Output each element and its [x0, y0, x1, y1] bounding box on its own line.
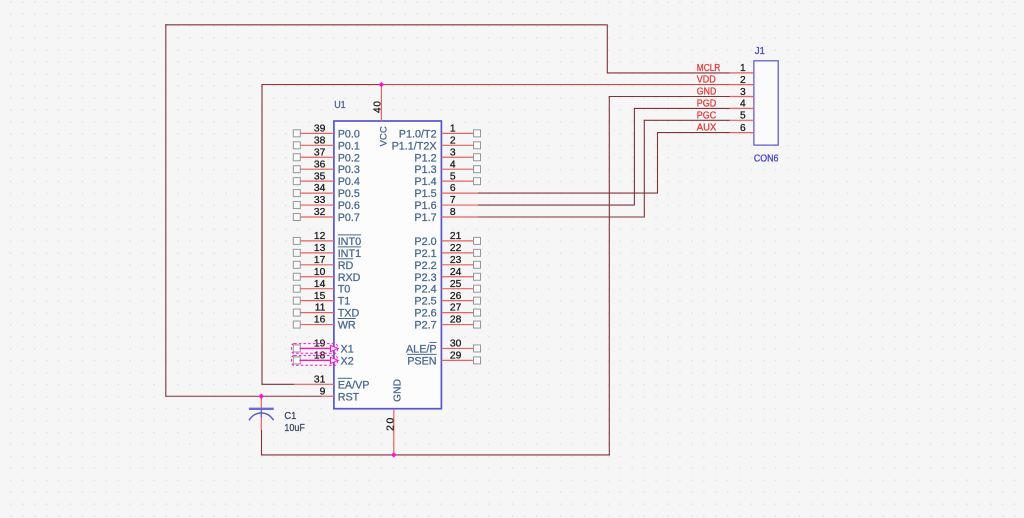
J1 pin 2 (VDD) — [697, 75, 754, 86]
svg-text:1: 1 — [450, 123, 456, 134]
svg-text:36: 36 — [314, 159, 326, 170]
svg-text:6: 6 — [740, 123, 746, 134]
svg-text:37: 37 — [314, 147, 326, 158]
svg-text:5: 5 — [450, 171, 456, 182]
U1 pin 38 P0.1 — [293, 135, 360, 152]
U1 pin 16 WR — [293, 315, 356, 332]
svg-text:T1: T1 — [338, 296, 351, 308]
svg-text:16: 16 — [314, 315, 326, 326]
U1 pin 35 P0.4 — [293, 171, 360, 188]
svg-text:P0.3: P0.3 — [338, 164, 360, 176]
svg-text:20: 20 — [386, 416, 397, 431]
U1 pin 2 P1.1/T2X — [392, 135, 481, 152]
svg-text:CON6: CON6 — [754, 154, 779, 165]
U1 pin 5 P1.4 — [414, 171, 480, 188]
svg-text:31: 31 — [314, 374, 326, 385]
U1 pin 8 P1.7 — [414, 207, 478, 224]
U1 pin 34 P0.5 — [293, 183, 360, 200]
svg-text:RST: RST — [338, 391, 360, 403]
svg-text:RD: RD — [338, 260, 354, 272]
U1 pin 19 X1 — [293, 339, 353, 356]
svg-text:PGD: PGD — [697, 99, 717, 110]
U1 pin 1 P1.0/T2 — [399, 123, 481, 140]
svg-text:P2.5: P2.5 — [414, 296, 436, 308]
U1 pin 14 T0 — [293, 279, 350, 296]
svg-text:30: 30 — [450, 339, 462, 350]
svg-text:P0.6: P0.6 — [338, 200, 360, 212]
svg-text:39: 39 — [314, 123, 326, 134]
wire PGC net: J1.5 to U1 P1.7(8) — [478, 120, 730, 218]
svg-text:VDD: VDD — [697, 75, 716, 86]
IC U1 body — [334, 121, 442, 409]
U1 pin 7 P1.6 — [414, 195, 478, 212]
svg-text:P2.7: P2.7 — [414, 320, 436, 332]
svg-text:WR: WR — [338, 320, 356, 332]
svg-text:AUX: AUX — [697, 123, 717, 134]
J1 pin 6 (AUX) — [697, 123, 754, 134]
wire VDD net: J1.2 to U1 VCC(40) and EA/VP(31) — [262, 84, 730, 385]
wire MCLR net: J1.1 to top-left loop to U1 RST — [165, 24, 730, 397]
U1 pin 25 P2.4 — [414, 279, 480, 296]
U1 pin 3 P1.2 — [414, 147, 480, 164]
J1 pin 3 (GND) — [697, 87, 754, 98]
U1 pin 23 P2.2 — [414, 255, 480, 272]
svg-text:3: 3 — [450, 147, 456, 158]
svg-text:T0: T0 — [338, 284, 351, 296]
svg-text:23: 23 — [450, 255, 462, 266]
svg-text:28: 28 — [450, 315, 462, 326]
svg-text:14: 14 — [314, 279, 326, 290]
svg-text:P1.4: P1.4 — [414, 176, 436, 188]
svg-text:VCC: VCC — [378, 126, 389, 146]
svg-text:P1.1/T2X: P1.1/T2X — [392, 140, 437, 152]
svg-text:15: 15 — [314, 291, 326, 302]
svg-text:17: 17 — [314, 255, 326, 266]
svg-text:10: 10 — [314, 267, 326, 278]
U1 pin 27 P2.6 — [414, 303, 480, 320]
U1 pin 6 P1.5 — [414, 183, 478, 200]
U1 pin 18 X2 — [293, 351, 353, 368]
svg-text:32: 32 — [314, 207, 326, 218]
svg-text:P0.4: P0.4 — [338, 176, 360, 188]
U1 pin 12 INT0 — [293, 231, 361, 248]
U1 pin 40 VCC (top) — [372, 85, 389, 147]
svg-text:P0.5: P0.5 — [338, 188, 360, 200]
svg-text:RXD: RXD — [338, 272, 361, 284]
svg-text:8: 8 — [450, 207, 456, 218]
U1 pin 30 ALE/P — [406, 339, 481, 356]
junction GND rail at U1 pin20 — [391, 452, 396, 457]
U1 pin 11 TXD — [293, 303, 359, 320]
J1 pin 4 (PGD) — [697, 99, 754, 110]
svg-text:INT0: INT0 — [338, 236, 361, 248]
svg-text:P1.5: P1.5 — [414, 188, 436, 200]
U1 pin 20 GND (bottom) — [386, 379, 404, 455]
svg-text:P1.0/T2: P1.0/T2 — [399, 128, 437, 140]
U1 pin 17 RD — [293, 255, 353, 272]
svg-text:13: 13 — [314, 243, 326, 254]
svg-text:29: 29 — [450, 351, 462, 362]
U1 pin 13 INT1 — [293, 243, 361, 260]
svg-text:P1.6: P1.6 — [414, 200, 436, 212]
svg-text:GND: GND — [392, 379, 403, 402]
U1 pin 24 P2.3 — [414, 267, 480, 284]
svg-text:P0.0: P0.0 — [338, 128, 360, 140]
wire GND net: J1.3 down to bottom rail, to U1 GND(20) and C1 — [261, 96, 730, 455]
svg-text:PGC: PGC — [697, 110, 717, 121]
svg-text:P1.2: P1.2 — [414, 152, 436, 164]
selection highlight on pin X2 — [292, 356, 339, 366]
svg-text:5: 5 — [740, 111, 746, 122]
svg-text:P1.3: P1.3 — [414, 164, 436, 176]
svg-text:P2.3: P2.3 — [414, 272, 436, 284]
U1 pin 29 PSEN — [407, 351, 480, 368]
svg-text:34: 34 — [314, 183, 326, 194]
svg-text:INT1: INT1 — [338, 248, 361, 260]
svg-text:27: 27 — [450, 303, 462, 314]
svg-text:P0.2: P0.2 — [338, 152, 360, 164]
svg-text:24: 24 — [450, 267, 462, 278]
svg-text:40: 40 — [372, 100, 383, 113]
U1 pin 22 P2.1 — [414, 243, 480, 260]
svg-text:33: 33 — [314, 195, 326, 206]
svg-text:C1: C1 — [284, 411, 296, 422]
U1 pin 21 P2.0 — [414, 231, 480, 248]
svg-text:GND: GND — [697, 87, 717, 98]
svg-text:X2: X2 — [341, 355, 354, 367]
svg-text:P2.4: P2.4 — [414, 284, 436, 296]
wire AUX net: J1.6 to U1 P1.5(6) — [478, 132, 730, 194]
svg-text:25: 25 — [450, 279, 462, 290]
wire PGD net: J1.4 to U1 P1.6(7) — [478, 108, 730, 206]
U1 pin 15 T1 — [293, 291, 350, 308]
junction RST net at C1 top — [259, 394, 264, 399]
U1 pin 31 EA/VP — [294, 374, 370, 391]
svg-text:TXD: TXD — [338, 308, 360, 320]
J1 pin 1 (MCLR) — [697, 63, 754, 74]
svg-text:P0.7: P0.7 — [338, 212, 360, 224]
selection highlight on pin X1 — [292, 344, 339, 354]
U1 pin 9 RST — [320, 386, 360, 403]
svg-text:P2.0: P2.0 — [414, 236, 436, 248]
svg-text:PSEN: PSEN — [407, 355, 436, 367]
svg-text:3: 3 — [740, 87, 746, 98]
U1 pin 10 RXD — [293, 267, 360, 284]
svg-text:P2.2: P2.2 — [414, 260, 436, 272]
svg-text:9: 9 — [320, 386, 326, 397]
svg-text:ALE/P: ALE/P — [406, 343, 437, 355]
svg-text:EA/VP: EA/VP — [338, 379, 370, 391]
U1 pin 32 P0.7 — [293, 207, 360, 224]
U1 pin 4 P1.3 — [414, 159, 480, 176]
svg-text:4: 4 — [450, 159, 456, 170]
svg-text:P2.6: P2.6 — [414, 308, 436, 320]
svg-text:U1: U1 — [334, 100, 346, 111]
svg-text:MCLR: MCLR — [697, 63, 721, 74]
svg-text:22: 22 — [450, 243, 462, 254]
svg-text:7: 7 — [450, 195, 456, 206]
svg-text:11: 11 — [315, 303, 326, 314]
U1 pin 37 P0.2 — [293, 147, 360, 164]
svg-text:X1: X1 — [341, 343, 354, 355]
U1 pin 33 P0.6 — [293, 195, 360, 212]
svg-text:P0.1: P0.1 — [338, 140, 360, 152]
svg-text:38: 38 — [314, 135, 326, 146]
svg-text:35: 35 — [314, 171, 326, 182]
U1 pin 36 P0.3 — [293, 159, 360, 176]
svg-text:2: 2 — [450, 135, 456, 146]
svg-text:10uF: 10uF — [284, 423, 305, 434]
U1 pin 39 P0.0 — [293, 123, 360, 140]
svg-text:12: 12 — [314, 231, 326, 242]
svg-text:21: 21 — [450, 231, 462, 242]
capacitor C1 — [249, 396, 274, 430]
connector J1 body — [754, 61, 778, 145]
svg-text:4: 4 — [740, 99, 746, 110]
svg-text:1: 1 — [740, 63, 746, 74]
svg-text:6: 6 — [450, 183, 456, 194]
svg-text:P1.7: P1.7 — [414, 212, 436, 224]
U1 pin 26 P2.5 — [414, 291, 480, 308]
junction VDD at U1 VCC stub — [379, 82, 384, 87]
svg-text:P2.1: P2.1 — [414, 248, 436, 260]
svg-text:2: 2 — [740, 75, 746, 86]
U1 pin 28 P2.7 — [414, 315, 480, 332]
svg-text:J1: J1 — [755, 46, 765, 57]
J1 pin 5 (PGC) — [697, 110, 754, 121]
svg-text:26: 26 — [450, 291, 462, 302]
